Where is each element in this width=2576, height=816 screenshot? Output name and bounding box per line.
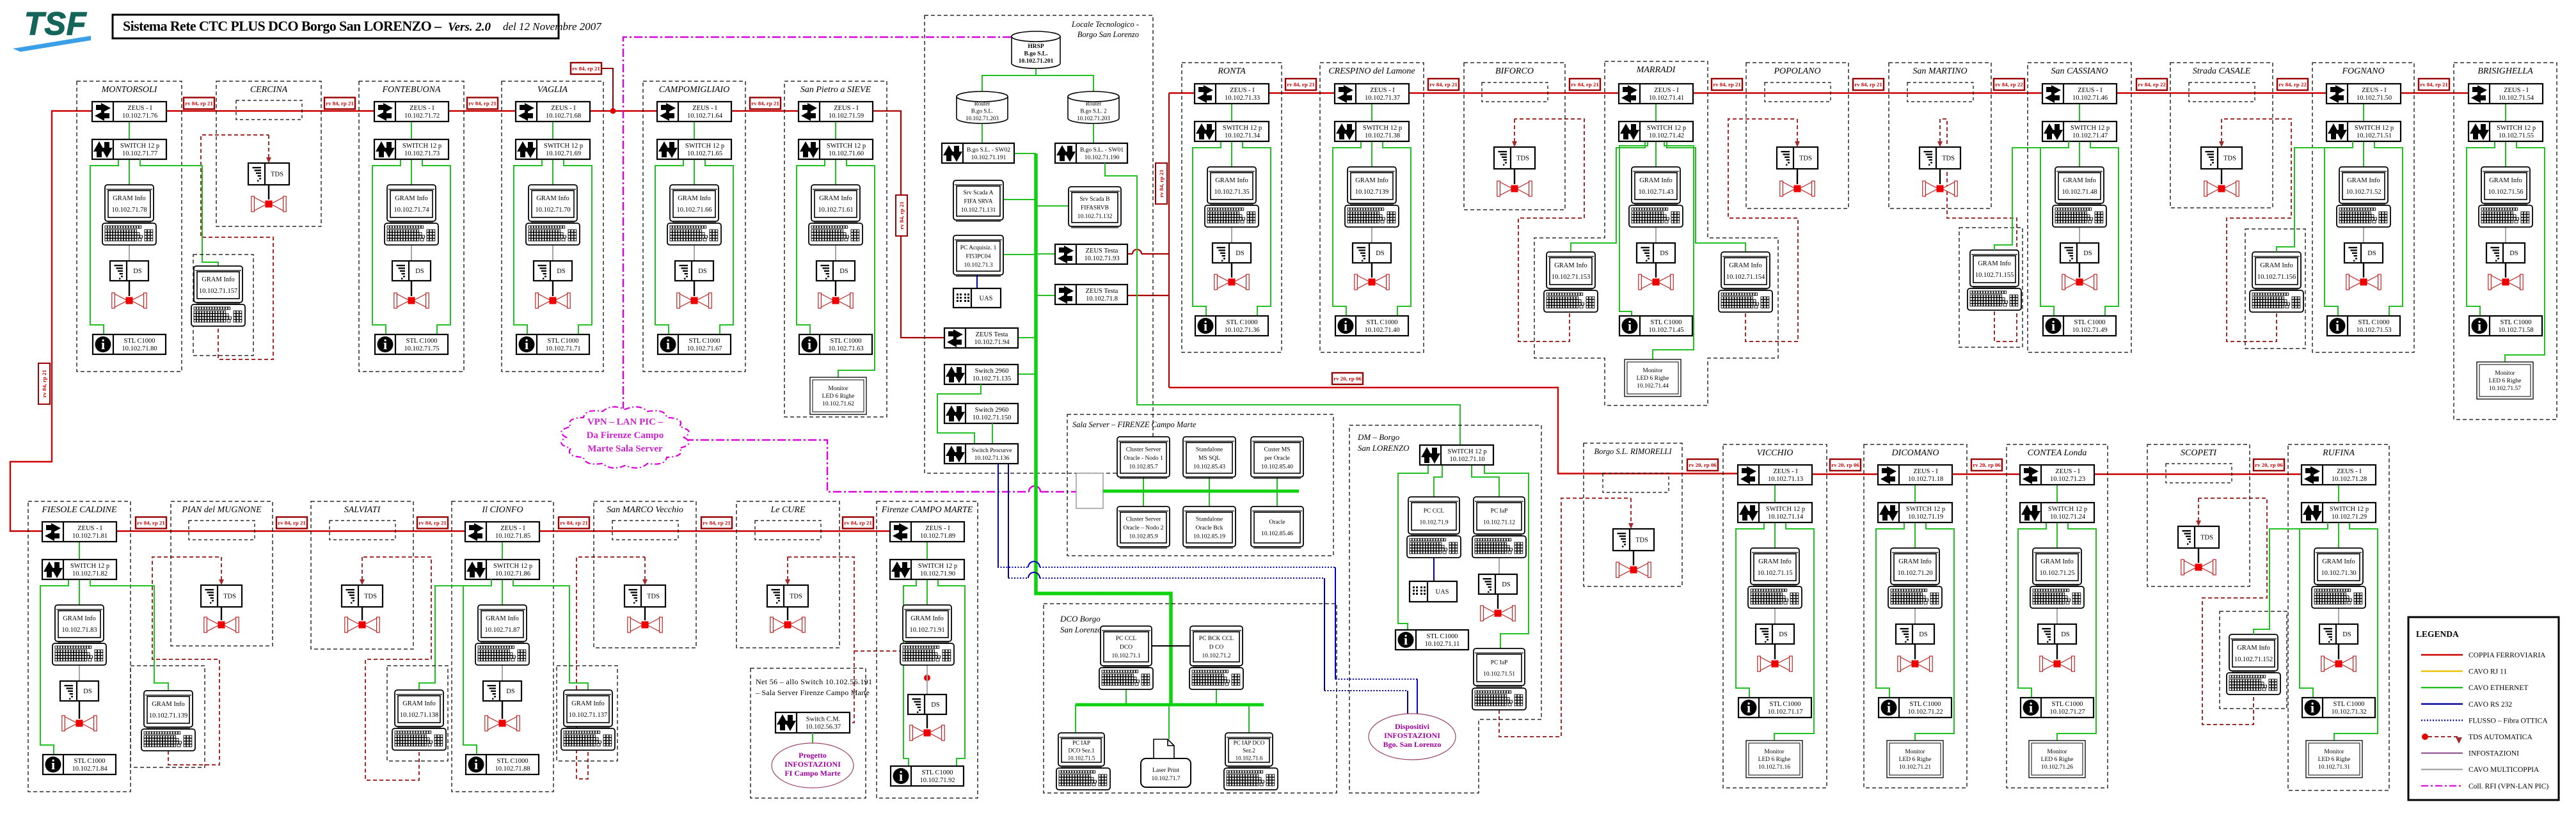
valve San MARTINO xyxy=(1923,181,1957,196)
magenta RFI VPN line xyxy=(623,37,1012,410)
red label rv84 xyxy=(136,517,166,529)
wire green left wrap to STL San Pietro a SIEVE xyxy=(797,159,825,334)
svg-text:rv 84, rp 21: rv 84, rp 21 xyxy=(137,520,165,526)
svg-text:STL C1000: STL C1000 xyxy=(2358,319,2390,326)
GRAM Info monitor 10.102.71.138 xyxy=(395,690,443,728)
svg-text:Srv Scada A: Srv Scada A xyxy=(964,190,994,196)
svg-text:CAVO RJ 11: CAVO RJ 11 xyxy=(2469,668,2507,676)
keyboard GRAM 139 xyxy=(141,729,195,751)
svg-text:10.102.71.70: 10.102.71.70 xyxy=(535,207,570,214)
station SALVIATI box xyxy=(311,501,413,649)
DS box DICOMANO xyxy=(1896,624,1934,644)
red label rv84 xyxy=(750,98,781,109)
svg-text:SWITCH 12 p: SWITCH 12 p xyxy=(493,563,532,570)
svg-text:10.102.71.203: 10.102.71.203 xyxy=(966,115,999,122)
GRAM Info monitor 10.102.71.78 xyxy=(105,185,154,223)
wire green left wrap to STL FONTEBUONA xyxy=(372,159,401,334)
svg-text:rv 84, rp 21: rv 84, rp 21 xyxy=(751,100,779,107)
svg-text:DS: DS xyxy=(1376,250,1385,257)
red coppia line bottom-left row xyxy=(42,530,960,531)
svg-text:per Oracle: per Oracle xyxy=(1264,455,1290,462)
svg-text:SWITCH 12 p: SWITCH 12 p xyxy=(685,143,724,150)
svg-text:10.102.71.57: 10.102.71.57 xyxy=(2489,386,2521,392)
DS box VICCHIO xyxy=(1756,624,1794,644)
svg-text:B.go S.L. - SW02: B.go S.L. - SW02 xyxy=(967,147,1010,153)
PC BCK CCL DCO xyxy=(1190,626,1243,667)
PC Acquisiz 1 xyxy=(953,235,1003,276)
keyboard CAMPOMIGLIAIO xyxy=(667,223,721,245)
wire multicoppia keyboard to DS BRISIGHELLA xyxy=(2505,227,2506,243)
wire green left wrap to STL Il CIONFO xyxy=(463,579,491,755)
wire green right to Monitor LED RUFINA xyxy=(2334,522,2378,741)
GRAM Info monitor 10.102.71.139 xyxy=(144,691,193,728)
SWITCH 12p 10.102.71.10 xyxy=(1420,445,1493,465)
svg-text:CAVO RS 232: CAVO RS 232 xyxy=(2469,701,2512,709)
svg-text:10.102.71.30: 10.102.71.30 xyxy=(2321,570,2356,577)
keyboard BRISIGHELLA xyxy=(2479,205,2532,227)
svg-text:San Pietro a SIEVE: San Pietro a SIEVE xyxy=(800,85,871,95)
empty equipment rect San MARCO Vecchio xyxy=(612,521,678,540)
svg-text:ZEUS - I: ZEUS - I xyxy=(1913,468,1938,475)
red label rv84 xyxy=(1994,79,2024,90)
svg-text:SWITCH 12 p: SWITCH 12 p xyxy=(1447,448,1486,455)
red label rv84 xyxy=(324,98,355,109)
svg-text:rv 84, rp 22: rv 84, rp 22 xyxy=(1995,81,2023,88)
svg-text:STL C1000: STL C1000 xyxy=(1651,319,1682,326)
svg-text:GRAM Info: GRAM Info xyxy=(395,195,428,202)
keyboard San Pietro a SIEVE xyxy=(809,223,863,245)
wire green ZEUS to SWITCH DICOMANO xyxy=(1914,485,1916,503)
wire green right wrap to STL CAMPOMIGLIAIO xyxy=(705,159,733,334)
legend INFOSTAZIONI xyxy=(2421,753,2463,754)
station CERCINA box xyxy=(216,81,321,226)
svg-text:DS: DS xyxy=(415,268,424,275)
wire green ILCIONFO sides xyxy=(419,579,491,690)
svg-text:10.102.85.7: 10.102.85.7 xyxy=(1129,464,1157,471)
svg-text:MS SQL: MS SQL xyxy=(1198,455,1220,462)
wire multicoppia keyboard to DS FONTEBUONA xyxy=(411,245,412,261)
red S.Pietro to ZEUS Testa 94 xyxy=(873,111,944,338)
svg-text:10.102.71.153: 10.102.71.153 xyxy=(1552,274,1590,281)
wire green to Progetto ellipse xyxy=(812,733,813,744)
keyboard DM2 xyxy=(1472,536,1526,558)
TDS automatic arrow PIAN del MUGNONE xyxy=(221,557,222,579)
svg-text:10.102.71.154: 10.102.71.154 xyxy=(1726,274,1765,281)
red coppia line top-right row xyxy=(1169,92,2527,93)
svg-text:STL C1000: STL C1000 xyxy=(1770,701,1801,708)
svg-text:10.102.71.150: 10.102.71.150 xyxy=(973,414,1011,421)
svg-text:Monitor: Monitor xyxy=(1642,368,1663,374)
PC CCL DCO xyxy=(1101,626,1152,667)
svg-text:TDS: TDS xyxy=(2200,535,2213,542)
UAS box DM xyxy=(1410,581,1457,602)
GRAM Info 10.102.71.43 xyxy=(1632,167,1680,205)
svg-text:HRSP: HRSP xyxy=(1028,43,1044,50)
svg-text:Vers. 2.0: Vers. 2.0 xyxy=(448,20,491,34)
wire DS to valve Il CIONFO xyxy=(502,701,503,719)
sub-box GRAM 139 xyxy=(131,666,205,767)
keyboard Il CIONFO xyxy=(475,643,529,665)
Switch 2960 150 xyxy=(944,404,1018,423)
svg-text:10.102.71.46: 10.102.71.46 xyxy=(2072,95,2108,102)
wire green ZEUS to SWITCH FIESOLE CALDINE xyxy=(79,542,80,560)
svg-text:STL C1000: STL C1000 xyxy=(2500,319,2532,326)
SWITCH 12p 10.102.71.65 xyxy=(657,139,731,159)
SWITCH 12p 10.102.71.77 xyxy=(92,139,166,159)
station Le CURE box xyxy=(736,501,839,648)
svg-text:DS: DS xyxy=(557,268,566,275)
GRAM Info monitor 10.102.71.156 xyxy=(2252,252,2301,290)
svg-text:TDS: TDS xyxy=(223,593,236,600)
LEGENDA box xyxy=(2408,617,2559,800)
keyboard GRAM 155 xyxy=(1968,288,2021,310)
svg-text:STL C1000: STL C1000 xyxy=(922,769,953,776)
wire green ZEUS to SWITCH Il CIONFO xyxy=(502,542,503,560)
svg-text:GRAM Info: GRAM Info xyxy=(1355,177,1388,184)
svg-text:10.102.71.19: 10.102.71.19 xyxy=(1908,514,1943,521)
svg-text:GRAM Info: GRAM Info xyxy=(910,615,944,622)
wire green MONTORSOLI to GRAM157 xyxy=(140,159,218,266)
svg-text:TDS AUTOMATICA: TDS AUTOMATICA xyxy=(2469,734,2532,741)
svg-text:PC CCL: PC CCL xyxy=(1116,636,1137,642)
wire green left wrap to STL CONTEA Londa xyxy=(2018,522,2046,698)
svg-text:10.102.71.80: 10.102.71.80 xyxy=(122,345,157,352)
svg-text:rv 84, rp 21: rv 84, rp 21 xyxy=(418,520,447,526)
TDS automatic arrow BIFORCO xyxy=(1514,119,1515,141)
svg-text:10.102.71.157: 10.102.71.157 xyxy=(199,288,237,295)
svg-text:Firenze CAMPO MARTE: Firenze CAMPO MARTE xyxy=(881,505,973,515)
ZEUS-I 10.102.71.28 xyxy=(2302,465,2376,485)
svg-text:10.102.71.33: 10.102.71.33 xyxy=(1225,95,1260,102)
GRAM Info 10.102.71.153 xyxy=(1546,252,1595,290)
wire multicoppia keyboard to DS MONTORSOLI xyxy=(129,245,130,261)
Monitor LED 6 Righe 10.102.71.21 xyxy=(1887,741,1943,778)
wire DS to valve San Pietro a SIEVE xyxy=(835,281,836,296)
svg-text:ZEUS - I: ZEUS - I xyxy=(409,105,434,112)
Monitor LED 6 Righe 10.102.71.16 xyxy=(1746,741,1802,778)
empty equipment rect BIFORCO xyxy=(1482,82,1548,102)
valve VAGLIA xyxy=(536,293,570,308)
STL C1000 10.102.71.45 xyxy=(1619,316,1692,336)
STL C1000 10.102.71.22 xyxy=(1879,698,1952,718)
valve FIESOLE CALDINE xyxy=(62,716,97,731)
ZEUS-I 10.102.71.18 xyxy=(1878,465,1952,485)
keyboard IAP1 xyxy=(1056,768,1110,790)
svg-text:San MARTINO: San MARTINO xyxy=(1912,67,1967,76)
wire green right wrap to STL FONTEBUONA xyxy=(422,159,450,334)
switch B.go SW02 xyxy=(942,143,1014,163)
wires MARRADI xyxy=(1655,104,1657,122)
svg-text:SWITCH 12 p: SWITCH 12 p xyxy=(70,563,109,570)
wire green left wrap to STL DICOMANO xyxy=(1876,522,1904,698)
svg-text:10.102.71.191: 10.102.71.191 xyxy=(971,155,1006,161)
valve MARRADI xyxy=(1639,274,1673,290)
svg-text:GRAM Info: GRAM Info xyxy=(1215,177,1248,184)
GRAM Info monitor 10.102.71.30 xyxy=(2314,548,2363,586)
GRAM Info monitor 10.102.71.137 xyxy=(564,690,612,728)
svg-text:GRAM Info: GRAM Info xyxy=(2489,177,2522,184)
station DICOMANO box xyxy=(1864,444,1967,788)
station Firenze CAMPO MARTE box xyxy=(877,501,978,798)
SWITCH 12p 10.102.71.69 xyxy=(516,139,590,159)
STL C1000 10.102.71.53 xyxy=(2327,316,2400,336)
GRAM Info monitor 10.102.71.74 xyxy=(387,185,436,223)
ZEUS-I 10.102.71.37 xyxy=(1335,84,1409,104)
station POPOLANO box xyxy=(1746,63,1849,208)
STL C1000 10.102.71.27 xyxy=(2021,698,2094,718)
red junction VAGLIA xyxy=(602,68,613,109)
station Il CIONFO box xyxy=(452,501,553,792)
wire green left wrap to STL VAGLIA xyxy=(514,159,542,334)
svg-text:STL C1000: STL C1000 xyxy=(831,338,862,345)
wire green SWITCH to GRAM RUFINA xyxy=(2338,522,2339,548)
STL C1000 10.102.71.17 xyxy=(1738,698,1811,718)
svg-text:TSF: TSF xyxy=(24,6,87,42)
ZEUS-I 10.102.71.33 xyxy=(1195,84,1269,104)
svg-text:10.102.71.28: 10.102.71.28 xyxy=(2332,476,2367,483)
svg-text:10.102.71.86: 10.102.71.86 xyxy=(495,570,530,577)
svg-text:STL C1000: STL C1000 xyxy=(2052,701,2083,708)
wire green SWITCH to GRAM San Pietro a SIEVE xyxy=(835,159,836,185)
red label rv84 xyxy=(417,517,448,529)
keyboard PCBCK xyxy=(1189,668,1243,689)
svg-text:10.102.71.38: 10.102.71.38 xyxy=(1365,132,1400,139)
wire DS to valve San CASSIANO xyxy=(2079,263,2080,278)
STL C1000 10.102.71.49 xyxy=(2043,316,2116,336)
ZEUS-I 10.102.71.50 xyxy=(2326,84,2401,104)
keyboard MARRADI xyxy=(1629,205,1683,227)
svg-text:10.102.71.156: 10.102.71.156 xyxy=(2257,274,2296,281)
svg-text:10.102.71.37: 10.102.71.37 xyxy=(1365,95,1400,102)
ZEUS Testa 93 xyxy=(1055,244,1127,264)
svg-text:DS: DS xyxy=(2061,631,2070,638)
svg-text:BIFORCO: BIFORCO xyxy=(1495,67,1534,76)
svg-text:ZEUS - I: ZEUS - I xyxy=(925,525,950,532)
rotated red label centre-left xyxy=(896,195,907,236)
wire green ZEUS to SWITCH RONTA xyxy=(1231,104,1232,122)
svg-text:DS: DS xyxy=(839,268,848,275)
wire green FOGNANO to GRAM156 xyxy=(2277,141,2353,252)
Standalone MS SQL xyxy=(1183,437,1236,478)
svg-text:rv 20, rp 06: rv 20, rp 06 xyxy=(1689,462,1717,468)
ZEUS Testa 94 xyxy=(944,328,1018,348)
wire DS to valve VAGLIA xyxy=(552,281,553,296)
wire green sw135 to procurve xyxy=(937,384,981,444)
wire green left wrap to STL RUFINA xyxy=(2300,522,2328,698)
TDS box Strada CASALE xyxy=(2201,147,2242,169)
svg-text:10.102.71.42: 10.102.71.42 xyxy=(1649,132,1684,139)
svg-text:Monitor: Monitor xyxy=(828,386,848,392)
svg-text:Oracle – Nodo 2: Oracle – Nodo 2 xyxy=(1123,525,1163,531)
SWITCH 12p 10.102.71.47 xyxy=(2042,122,2117,141)
SWITCH 12p 10.102.71.34 xyxy=(1195,122,1269,141)
svg-text:Il CIONFO: Il CIONFO xyxy=(481,505,523,515)
valve FONTEBUONA xyxy=(394,293,429,308)
svg-text:FONTEBUONA: FONTEBUONA xyxy=(382,85,441,95)
red label rv20 xyxy=(1830,459,1861,471)
DS box MONTORSOLI xyxy=(110,261,148,281)
wire TDS to valve BIFORCO xyxy=(1514,169,1515,184)
Net56 box xyxy=(751,668,866,798)
svg-text:10.102.71.152: 10.102.71.152 xyxy=(2234,656,2273,663)
svg-text:10.102.71.16: 10.102.71.16 xyxy=(1758,764,1790,771)
station VICCHIO box xyxy=(1723,444,1827,788)
svg-text:Sala Server – FIRENZE Campo Ma: Sala Server – FIRENZE Campo Marte xyxy=(1072,420,1197,429)
ZEUS-I 10.102.71.54 xyxy=(2469,84,2543,104)
green server bus xyxy=(1103,490,1299,493)
svg-text:UAS: UAS xyxy=(1435,589,1449,596)
magenta cloud to sala server xyxy=(685,440,1029,492)
Monitor LED 6 Righe 10.102.71.26 xyxy=(2029,741,2085,778)
svg-text:LED 6 Righe: LED 6 Righe xyxy=(1758,757,1791,763)
station SCOPETI box xyxy=(2147,444,2250,586)
Oracle xyxy=(1251,506,1303,548)
red dashed GRAM154 to POPOLANO TDS xyxy=(1728,119,1798,341)
valve Il CIONFO xyxy=(485,716,520,731)
wire green right wrap to STL CRESPINO del Lamone xyxy=(1383,141,1411,316)
legend CAVO ETHERNET xyxy=(2421,687,2463,688)
svg-text:10.102.71.85: 10.102.71.85 xyxy=(495,533,530,540)
DS box CRESPINO del Lamone xyxy=(1353,243,1391,263)
svg-text:GRAM Info: GRAM Info xyxy=(1978,260,2011,267)
rotated red label right xyxy=(1156,163,1167,204)
wire green ZEUS to SWITCH CAMPOMIGLIAIO xyxy=(694,122,695,139)
ZEUS-I 10.102.71.81 xyxy=(42,522,116,542)
station San Pietro a SIEVE box xyxy=(784,81,887,417)
legend TDS AUTOMATICA xyxy=(2422,734,2428,740)
svg-text:San LORENZO: San LORENZO xyxy=(1358,443,1410,453)
legend CAVO MULTICOPPIA xyxy=(2421,769,2463,770)
red label rv84 xyxy=(1853,79,1884,90)
wire green SWITCH to GRAM BRISIGHELLA xyxy=(2505,141,2506,167)
svg-text:STL C1000: STL C1000 xyxy=(74,758,106,765)
DS box RUFINA xyxy=(2319,624,2358,644)
TDS box San MARCO Vecchio xyxy=(624,585,665,607)
SWITCH 12p 10.102.71.51 xyxy=(2326,122,2401,141)
SWITCH 12p 10.102.71.38 xyxy=(1335,122,1409,141)
keyboard RONTA xyxy=(1205,205,1259,227)
svg-text:10.102.7139: 10.102.7139 xyxy=(1355,189,1389,196)
svg-text:GRAM Info: GRAM Info xyxy=(2040,558,2074,565)
Monitor LED 10.102.71.44 xyxy=(1625,359,1681,396)
svg-text:rv 84, rp 21: rv 84, rp 21 xyxy=(1429,81,1458,88)
svg-text:DICOMANO: DICOMANO xyxy=(1891,448,1939,458)
legend Coll. RFI (VPN-LAN PIC) xyxy=(2421,785,2463,787)
red label rv84 xyxy=(1570,79,1600,90)
svg-text:10.102.71.53: 10.102.71.53 xyxy=(2356,327,2391,334)
rotated red label left xyxy=(38,363,50,404)
svg-text:Router: Router xyxy=(974,100,990,107)
valve SALVIATI xyxy=(345,617,379,632)
svg-text:DCO Sez.1: DCO Sez.1 xyxy=(1069,748,1095,754)
STL C1000 10.102.71.84 xyxy=(43,755,116,774)
svg-text:Switch C.M.: Switch C.M. xyxy=(806,716,840,723)
wire green left wrap to STL RONTA xyxy=(1193,141,1221,316)
SWITCH 12p 10.102.71.42 xyxy=(1619,122,1693,141)
svg-text:10.102.71.65: 10.102.71.65 xyxy=(687,150,722,157)
svg-text:TDS: TDS xyxy=(364,593,377,600)
red dashed GRAM155 to SanMARTINO TDS xyxy=(1940,119,2017,341)
svg-text:Da Firenze Campo: Da Firenze Campo xyxy=(587,430,664,441)
svg-text:B.go S.L.: B.go S.L. xyxy=(1024,51,1048,58)
wire DS to valve MONTORSOLI xyxy=(129,281,130,296)
valve SCOPETI xyxy=(2181,560,2216,575)
svg-text:10.102.71.64: 10.102.71.64 xyxy=(687,113,723,120)
svg-text:10.102.71.58: 10.102.71.58 xyxy=(2498,327,2533,334)
svg-text:DS: DS xyxy=(1779,631,1788,638)
svg-text:10.102.71.74: 10.102.71.74 xyxy=(394,207,429,214)
ZEUS-I 10.102.71.64 xyxy=(657,102,731,122)
TDS box Le CURE xyxy=(767,585,808,607)
svg-text:10.102.71.63: 10.102.71.63 xyxy=(828,345,863,352)
DS box San CASSIANO xyxy=(2060,243,2099,263)
TDS box CERCINA xyxy=(248,163,289,185)
red dashed GRAM156 to StradaCASALE TDS xyxy=(2222,119,2291,341)
wire DS to valve FOGNANO xyxy=(2363,263,2364,278)
svg-text:LEGENDA: LEGENDA xyxy=(2416,629,2459,639)
STL C1000 10.102.71.63 xyxy=(799,334,872,354)
GRAM Info monitor 10.102.71.70 xyxy=(529,185,577,223)
svg-text:San CASSIANO: San CASSIANO xyxy=(2051,67,2108,76)
STL C1000 10.102.71.40 xyxy=(1335,316,1408,336)
empty equipment rect Strada CASALE xyxy=(2189,82,2255,102)
STL C1000 10.102.71.67 xyxy=(658,334,731,354)
keyboard GRAM 152 xyxy=(2227,673,2280,694)
DS box FOGNANO xyxy=(2344,243,2383,263)
svg-text:10.102.71.8: 10.102.71.8 xyxy=(1086,295,1118,302)
keyboard GRAM 137 xyxy=(561,728,615,750)
svg-text:LED 6 Righe: LED 6 Righe xyxy=(1899,757,1932,763)
green ethernet thick bus xyxy=(1036,153,1171,705)
svg-text:Coll. RFI (VPN-LAN PIC): Coll. RFI (VPN-LAN PIC) xyxy=(2469,783,2548,790)
svg-text:rv 84, rp 21: rv 84, rp 21 xyxy=(844,520,872,526)
valve BRISIGHELLA xyxy=(2488,274,2523,290)
wire green right wrap to STL RONTA xyxy=(1243,141,1271,316)
svg-text:ZEUS - I: ZEUS - I xyxy=(127,105,152,112)
svg-text:SWITCH 12 p: SWITCH 12 p xyxy=(2355,125,2394,132)
svg-text:10.102.71.135: 10.102.71.135 xyxy=(973,375,1011,382)
wire green right to Monitor LED San Pietro a SIEVE xyxy=(838,159,875,377)
valve VICCHIO xyxy=(1758,656,1792,671)
TDS automatic arrow POPOLANO xyxy=(1797,119,1798,141)
svg-text:LED 6 Righe: LED 6 Righe xyxy=(2041,757,2074,763)
svg-text:SWITCH 12 p: SWITCH 12 p xyxy=(544,143,583,150)
svg-text:DS: DS xyxy=(698,268,707,275)
red coppia line bottom-right row xyxy=(1738,473,2367,475)
Monitor LED 6 Righe 10.102.71.31 xyxy=(2306,741,2362,778)
svg-text:PC IaP: PC IaP xyxy=(1491,660,1508,666)
svg-text:SWITCH 12 p: SWITCH 12 p xyxy=(2071,125,2110,132)
svg-text:BRISIGHELLA: BRISIGHELLA xyxy=(2477,67,2533,76)
svg-text:B.go S.L. 2: B.go S.L. 2 xyxy=(1080,108,1106,114)
valve CRESPINO del Lamone xyxy=(1355,274,1389,290)
svg-text:GRAM Info: GRAM Info xyxy=(571,700,605,707)
svg-text:FLUSSO – Fibra OTTICA: FLUSSO – Fibra OTTICA xyxy=(2469,717,2548,725)
svg-text:10.102.71.22: 10.102.71.22 xyxy=(1907,709,1943,716)
TDS box SALVIATI xyxy=(342,585,383,607)
svg-text:10.102.71.50: 10.102.71.50 xyxy=(2357,95,2392,102)
svg-text:Oracle Bck: Oracle Bck xyxy=(1196,525,1223,531)
svg-text:10.102.71.69: 10.102.71.69 xyxy=(546,150,581,157)
svg-text:rv 84, rp 21: rv 84, rp 21 xyxy=(1713,81,1741,88)
DS box FCM xyxy=(908,694,946,714)
valve DICOMANO xyxy=(1898,656,1932,671)
svg-text:ZEUS Testa: ZEUS Testa xyxy=(1086,247,1118,255)
svg-text:rv 84, rp 21: rv 84, rp 21 xyxy=(41,370,47,398)
TDS automatic arrow SCOPETI xyxy=(2198,498,2199,521)
empty equipment rect SALVIATI xyxy=(330,521,395,540)
red vertical bus x1827 xyxy=(1168,93,1170,388)
